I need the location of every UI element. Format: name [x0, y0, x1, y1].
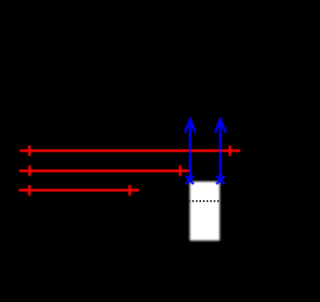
- ray line 2 right end tick: [179, 166, 182, 177]
- right blue arrow shaft: [219, 120, 222, 180]
- ray line 2 left end tick: [28, 166, 31, 177]
- ray line 3 left end tick: [28, 185, 31, 196]
- ray line 2 (middle red ray): [19, 170, 189, 173]
- dotted interface line inside slab: [189, 200, 221, 202]
- left blue arrow shaft: [189, 120, 192, 180]
- right blue arrow head: [215, 120, 226, 133]
- ray line 3 right end tick: [128, 185, 131, 196]
- left blue X marker: [186, 176, 194, 184]
- ray line 1 right end tick: [229, 145, 232, 156]
- blend patch at right arrow / ray 1 crossing: [219, 149, 222, 152]
- white slab: [190, 182, 220, 241]
- ray line 3 (bottom red ray): [19, 189, 139, 192]
- blend patch at left arrow / ray 1 crossing: [189, 149, 192, 152]
- ray line 1 (top red ray): [20, 149, 241, 152]
- ray line 1 left end tick: [28, 145, 31, 156]
- left blue arrow head: [185, 120, 196, 133]
- right blue X marker: [216, 176, 224, 184]
